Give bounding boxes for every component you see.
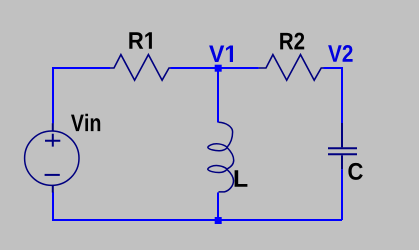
- capacitor C: bottom plate: [328, 153, 357, 155]
- inductor L: coil: [208, 122, 234, 192]
- node junction dot at bottom of inductor: [215, 217, 222, 224]
- wire: node V1 to R2: [218, 67, 259, 69]
- wire: R1 to node V1: [171, 67, 219, 69]
- wire: top-left from R1 to Vin top lead: [53, 68, 110, 123]
- voltage source Vin: top lead: [52, 123, 54, 131]
- wire: inductor to bottom junction: [217, 192, 219, 220]
- wire: R2 to node V2 corner, down to capacitor: [324, 68, 343, 123]
- label R1: [129, 32, 152, 49]
- label R2: [280, 33, 304, 50]
- capacitor C: top plate: [328, 147, 357, 149]
- resistor R1: [110, 55, 171, 81]
- node label V2: [328, 45, 353, 62]
- wire: Vin bottom lead to bottom rail: [52, 192, 54, 220]
- resistor R2: [259, 55, 324, 81]
- node label V1: [209, 46, 233, 63]
- voltage source Vin: plus sign: [45, 134, 60, 147]
- node V1 junction dot: [215, 65, 222, 72]
- voltage source Vin: bottom lead: [52, 185, 54, 192]
- voltage source Vin: minus sign: [45, 174, 60, 176]
- wire: capacitor to bottom rail: [341, 169, 343, 220]
- capacitor C: bottom lead: [341, 155, 343, 169]
- label C: [348, 163, 362, 180]
- voltage source Vin: circle body: [25, 131, 79, 185]
- label L: [235, 170, 248, 187]
- wire: bottom rail: [52, 219, 342, 221]
- wire: node V1 down to inductor: [217, 68, 219, 123]
- capacitor C: top lead: [341, 123, 343, 147]
- label Vin: [71, 114, 100, 131]
